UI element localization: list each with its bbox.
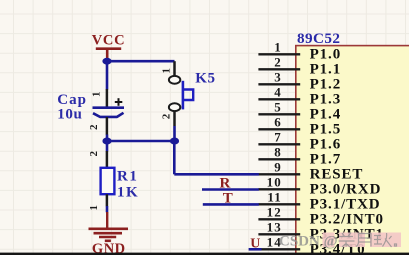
svg-text:P1.0: P1.0 <box>310 46 342 62</box>
junction node C <box>170 138 179 145</box>
pin 13 P3.3/INT1 <box>258 220 384 243</box>
pin 9 RESET <box>258 160 363 183</box>
pin 1 P1.0 <box>258 40 341 63</box>
pin 4 P1.3 <box>258 85 341 108</box>
pin 6 P1.5 <box>258 115 341 138</box>
capacitor Cap 10u <box>57 89 124 135</box>
svg-text:6: 6 <box>274 115 282 130</box>
svg-text:R1: R1 <box>117 169 138 185</box>
wire K5 pin2 to node C <box>173 126 176 141</box>
pin 3 P1.2 <box>258 70 341 93</box>
svg-text:P1.5: P1.5 <box>310 121 342 137</box>
wire R1 to GND <box>106 206 109 212</box>
svg-text:2: 2 <box>88 124 100 130</box>
pin 10 P3.0/RXD <box>258 175 381 198</box>
pin 8 P1.7 <box>258 145 341 168</box>
power GND <box>89 212 129 255</box>
pin 2 P1.1 <box>258 55 341 78</box>
pin 12 P3.2/INT0 <box>258 205 384 228</box>
wire to RESET pin 9 <box>174 173 258 176</box>
svg-text:P1.7: P1.7 <box>310 151 342 167</box>
wire node B to R1 <box>106 141 109 152</box>
wire node A to K5 pin1 <box>107 60 175 63</box>
svg-text:P1.1: P1.1 <box>310 61 342 77</box>
wire node B to node C <box>107 140 175 143</box>
svg-text:Cap: Cap <box>57 92 87 108</box>
svg-text:P1.2: P1.2 <box>310 76 342 92</box>
svg-text:89C52: 89C52 <box>297 30 340 47</box>
svg-text:P3.2/INT0: P3.2/INT0 <box>310 211 384 227</box>
svg-text:1K: 1K <box>117 185 139 201</box>
svg-text:4: 4 <box>274 85 282 100</box>
svg-text:2: 2 <box>88 150 100 156</box>
pin 11 P3.1/TXD <box>258 190 380 213</box>
svg-text:P1.4: P1.4 <box>310 106 342 122</box>
svg-text:1: 1 <box>274 40 282 55</box>
power VCC <box>92 33 126 60</box>
svg-text:3: 3 <box>274 70 282 85</box>
junction node A <box>102 58 111 65</box>
svg-text:9: 9 <box>274 160 282 175</box>
svg-text:8: 8 <box>274 145 282 160</box>
push button K5 <box>161 61 216 126</box>
IC U1 89C52 body <box>296 46 409 255</box>
wire capacitor to node B <box>106 135 109 142</box>
wire node A down to capacitor <box>106 61 109 89</box>
wire net U to pin 14 <box>249 248 262 251</box>
junction node B <box>102 138 111 145</box>
svg-text:1: 1 <box>88 205 100 211</box>
pin 14 P3.4/T0 <box>258 235 365 255</box>
bottom edge bar <box>0 253 409 255</box>
svg-text:VCC: VCC <box>92 33 126 49</box>
svg-text:12: 12 <box>267 205 282 220</box>
svg-text:2: 2 <box>274 55 282 70</box>
svg-text:P3.1/TXD: P3.1/TXD <box>310 196 381 212</box>
svg-text:11: 11 <box>267 190 281 205</box>
pin 7 P1.6 <box>258 130 341 153</box>
svg-text:10: 10 <box>267 175 282 190</box>
svg-text:1: 1 <box>90 92 102 98</box>
svg-text:10u: 10u <box>57 107 82 123</box>
svg-text:P3.0/RXD: P3.0/RXD <box>310 181 382 197</box>
svg-text:P1.6: P1.6 <box>310 136 342 152</box>
svg-text:P1.3: P1.3 <box>310 91 342 107</box>
svg-text:13: 13 <box>267 220 282 235</box>
resistor R1 1K <box>88 150 139 210</box>
watermark CSDN <box>279 233 401 250</box>
svg-text:5: 5 <box>274 100 282 115</box>
svg-text:1: 1 <box>161 68 173 74</box>
svg-text:7: 7 <box>274 130 282 145</box>
svg-text:CSDN @: CSDN @ <box>279 234 338 250</box>
pin 5 P1.4 <box>258 100 341 123</box>
wire net T to pin 11 <box>203 203 259 206</box>
svg-text:K5: K5 <box>195 70 215 86</box>
svg-text:RESET: RESET <box>310 166 364 182</box>
svg-text:2: 2 <box>161 113 173 119</box>
wire net R to pin 10 <box>202 188 259 191</box>
wire node C down <box>173 141 176 174</box>
